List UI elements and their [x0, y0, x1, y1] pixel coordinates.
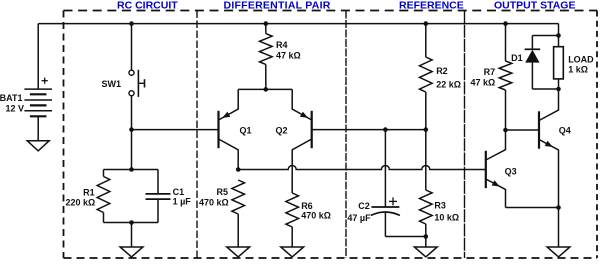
svg-text:47 µF: 47 µF [347, 213, 371, 223]
svg-text:RC CIRCUIT: RC CIRCUIT [117, 0, 178, 11]
svg-text:1 kΩ: 1 kΩ [568, 64, 588, 74]
svg-text:Q4: Q4 [559, 125, 571, 135]
svg-text:BAT1: BAT1 [0, 93, 23, 103]
svg-text:R5: R5 [216, 187, 228, 197]
svg-text:R1: R1 [83, 187, 95, 197]
svg-text:220 kΩ: 220 kΩ [65, 198, 95, 208]
svg-text:470 kΩ: 470 kΩ [199, 198, 229, 208]
svg-text:Q2: Q2 [276, 126, 288, 136]
svg-text:DIFFERENTIAL PAIR: DIFFERENTIAL PAIR [224, 0, 331, 11]
svg-text:C2: C2 [358, 201, 370, 211]
svg-text:R6: R6 [301, 201, 313, 211]
svg-text:Q3: Q3 [505, 167, 517, 177]
svg-text:1 µF: 1 µF [173, 197, 192, 207]
svg-text:47 kΩ: 47 kΩ [276, 50, 301, 60]
svg-text:47 kΩ: 47 kΩ [470, 78, 495, 88]
svg-text:REFERENCE: REFERENCE [399, 0, 464, 11]
svg-text:12 V: 12 V [5, 103, 24, 113]
svg-text:R3: R3 [434, 201, 446, 211]
svg-text:470 kΩ: 470 kΩ [301, 211, 331, 221]
svg-text:R4: R4 [276, 40, 288, 50]
svg-text:10 kΩ: 10 kΩ [434, 212, 459, 222]
svg-text:LOAD: LOAD [568, 55, 594, 65]
svg-text:22 kΩ: 22 kΩ [436, 80, 461, 90]
svg-text:OUTPUT STAGE: OUTPUT STAGE [494, 0, 575, 11]
svg-text:D1: D1 [511, 53, 523, 63]
svg-text:Q1: Q1 [240, 126, 252, 136]
svg-text:R2: R2 [436, 66, 448, 76]
svg-text:SW1: SW1 [101, 79, 121, 89]
svg-text:R7: R7 [484, 67, 496, 77]
